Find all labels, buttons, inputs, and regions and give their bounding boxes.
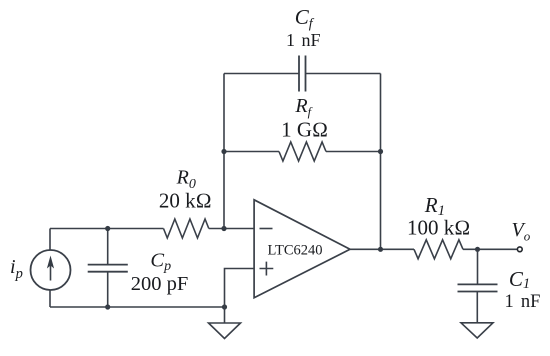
op-amp U1 LTC6240: [254, 200, 350, 298]
node C1 junction: [475, 247, 480, 252]
capacitor Cp: [88, 229, 128, 308]
svg-text:1 GΩ: 1 GΩ: [281, 117, 328, 141]
node junction R0 / feedback left: [221, 226, 226, 231]
terminal Vo open circle: [517, 247, 522, 252]
current source ip: [31, 229, 71, 308]
output wire from op-amp: [350, 248, 414, 250]
capacitor Cf: [224, 56, 381, 92]
feedback left vertical wire: [223, 74, 225, 229]
feedback right vertical wire: [380, 74, 382, 250]
node bottom junction: [222, 304, 227, 309]
svg-text:LTC6240: LTC6240: [267, 243, 322, 259]
svg-text:20 kΩ: 20 kΩ: [159, 189, 212, 213]
resistor Rf row: [224, 151, 279, 153]
wire top-left from current source to R0: [50, 228, 164, 230]
node Cp top: [105, 226, 110, 231]
svg-text:1 nF: 1 nF: [504, 292, 540, 312]
svg-text:1 nF: 1 nF: [286, 30, 321, 50]
wire R1 to output terminal: [463, 248, 517, 250]
node Cp bottom: [105, 304, 110, 309]
ground under op-amp: [209, 307, 241, 339]
node output junction: [378, 247, 383, 252]
resistor Rf: [279, 142, 326, 161]
node Rf left: [221, 149, 226, 154]
node Rf right: [378, 149, 383, 154]
capacitor C1: [458, 249, 498, 322]
wire bottom rail: [50, 306, 225, 308]
resistor R1: [414, 240, 463, 259]
wire to op-amp non-inverting input: [225, 269, 255, 308]
wire R0 to op-amp inverting input: [209, 228, 254, 230]
svg-text:100 kΩ: 100 kΩ: [407, 216, 470, 240]
svg-text:200 pF: 200 pF: [131, 273, 189, 295]
resistor R0: [164, 219, 209, 238]
ground under C1: [461, 323, 493, 338]
